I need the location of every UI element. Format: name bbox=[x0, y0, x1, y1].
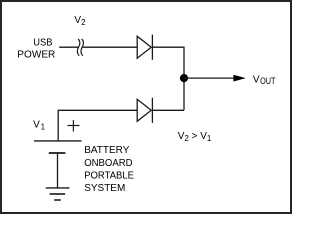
svg-text:V: V bbox=[253, 74, 260, 85]
diode D1 (USB side) bbox=[137, 35, 152, 60]
svg-text:USB: USB bbox=[33, 37, 53, 48]
plus sign (battery polarity) bbox=[67, 120, 79, 132]
BATTERY ONBOARD PORTABLE SYSTEM label bbox=[84, 145, 134, 194]
diode D2 (battery side) bbox=[137, 98, 152, 123]
svg-text:POWER: POWER bbox=[17, 49, 55, 60]
svg-text:V2 > V1: V2 > V1 bbox=[178, 131, 212, 143]
svg-text:OUT: OUT bbox=[260, 76, 276, 86]
wire: battery positive to D2 anode bbox=[58, 110, 137, 141]
node V2 label bbox=[74, 15, 86, 27]
wire: output node to VOUT arrow bbox=[184, 77, 235, 79]
arrowhead at VOUT bbox=[233, 75, 245, 82]
wire: USB POWER to break symbol bbox=[59, 46, 79, 48]
wire: D2 cathode to output node bbox=[152, 109, 184, 111]
wire: battery negative to ground bbox=[57, 153, 59, 188]
wire: break symbol to D1 anode bbox=[82, 46, 137, 48]
svg-text:SYSTEM: SYSTEM bbox=[84, 183, 125, 194]
battery V1 (cell plates) bbox=[34, 141, 82, 153]
wire: D1 cathode to output node, then down to D2 cathode level bbox=[152, 47, 184, 110]
break symbol on USB wire bbox=[77, 39, 79, 56]
USB POWER source label bbox=[17, 37, 55, 60]
junction dot (output node) bbox=[180, 74, 188, 82]
ground bbox=[46, 188, 70, 200]
VOUT label bbox=[253, 74, 276, 86]
node V1 label bbox=[33, 119, 45, 131]
svg-text:ONBOARD: ONBOARD bbox=[84, 158, 132, 169]
svg-text:BATTERY: BATTERY bbox=[84, 145, 130, 156]
annotation V2 > V1 bbox=[178, 131, 212, 143]
svg-text:PORTABLE: PORTABLE bbox=[84, 171, 134, 182]
